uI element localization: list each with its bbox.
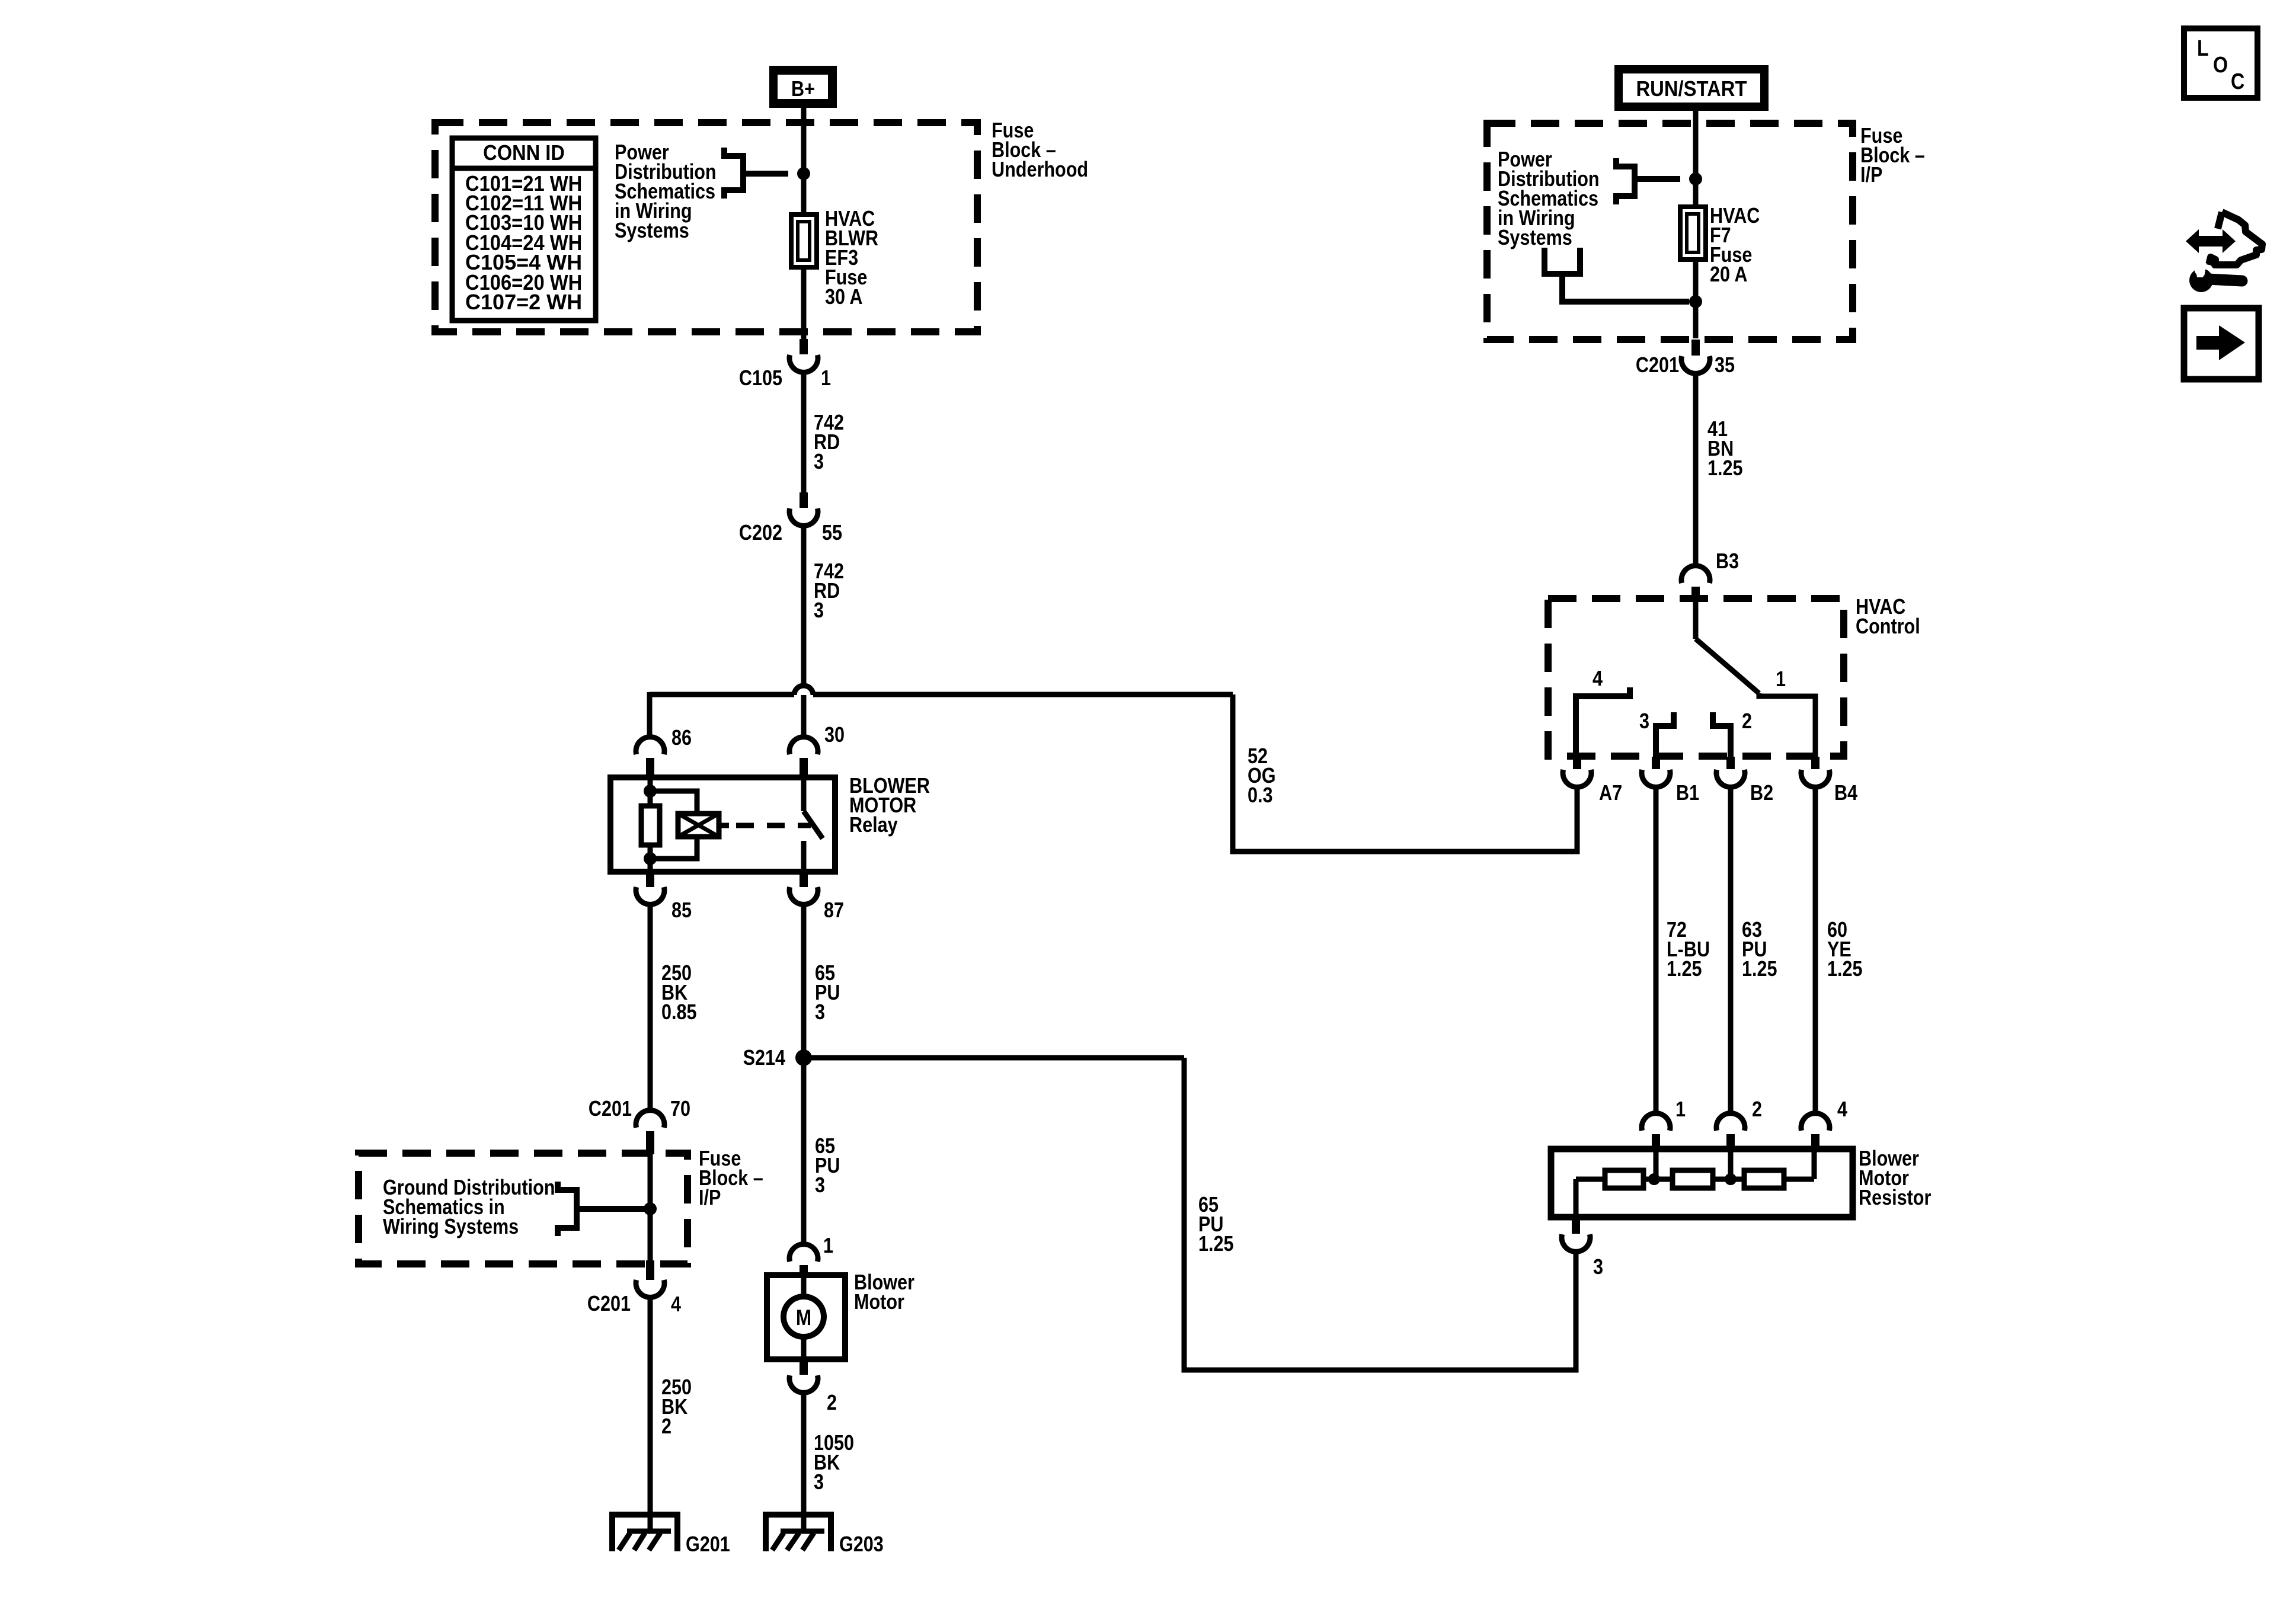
fuse block I/P dashed box (top right) bbox=[1487, 123, 1853, 340]
HVAC control pin A7 blade bbox=[1573, 757, 1581, 769]
svg-text:Wiring Systems: Wiring Systems bbox=[383, 1215, 519, 1239]
svg-text:1: 1 bbox=[1776, 668, 1786, 692]
svg-text:C201: C201 bbox=[1636, 354, 1679, 377]
wire 250 BK to ground G201 bbox=[648, 1297, 653, 1515]
wire 52 OG right segment bbox=[813, 692, 1233, 697]
wire 72 L-BU B1 to resistor pin 1 bbox=[1654, 787, 1659, 1112]
wire fuse EF3 to C105 bbox=[801, 267, 807, 339]
svg-text:3: 3 bbox=[815, 1001, 825, 1025]
relay coil top lead bbox=[648, 777, 653, 806]
svg-text:CONN ID: CONN ID bbox=[483, 142, 565, 165]
connector C201 pin 35 cup bbox=[1681, 356, 1710, 373]
junction dot fuse F7 bottom bbox=[1689, 295, 1702, 308]
svg-text:G203: G203 bbox=[839, 1533, 884, 1557]
svg-text:55: 55 bbox=[822, 521, 842, 545]
switch position 1 contact to B4 bbox=[1759, 693, 1815, 757]
solenoid actuation stub bbox=[719, 823, 729, 828]
wire resistor chain segment A-B bbox=[1643, 1177, 1673, 1182]
relay pin 30 blade bbox=[800, 758, 808, 777]
svg-text:Systems: Systems bbox=[615, 219, 689, 243]
relay pin 86 cup bbox=[636, 737, 664, 754]
svg-text:C107=2 WH: C107=2 WH bbox=[465, 291, 582, 315]
svg-text:B+: B+ bbox=[791, 78, 815, 101]
svg-text:Resistor: Resistor bbox=[1859, 1186, 1931, 1210]
fuse HVAC BLWR EF3 30A bbox=[791, 215, 817, 267]
blower motor box bbox=[767, 1275, 845, 1359]
junction dot fuse F7 top bbox=[1689, 172, 1702, 185]
HVAC control dashed box bbox=[1548, 598, 1844, 756]
connector C201 pin 35 blade bbox=[1691, 340, 1700, 356]
svg-text:Relay: Relay bbox=[849, 814, 898, 837]
svg-text:30 A: 30 A bbox=[825, 286, 862, 309]
svg-text:1: 1 bbox=[823, 1234, 833, 1258]
relay pin 30 cup bbox=[789, 737, 818, 754]
svg-text:4: 4 bbox=[671, 1293, 681, 1317]
svg-text:2: 2 bbox=[1742, 710, 1752, 734]
resistor node pin2 bbox=[1725, 1173, 1737, 1185]
wire 742 RD C202 to hop bbox=[801, 526, 807, 686]
blower motor pin 2 cup bbox=[789, 1375, 818, 1393]
resistor pin 4 blade bbox=[1811, 1134, 1819, 1149]
svg-text:35: 35 bbox=[1715, 354, 1735, 377]
wire 250 BK pin85 to C201-70 bbox=[648, 904, 653, 1112]
svg-text:C201: C201 bbox=[589, 1097, 632, 1121]
LOC icon box bbox=[2184, 28, 2257, 98]
relay actuation dashed link bbox=[736, 823, 811, 828]
fuse HVAC F7 20A bbox=[1680, 207, 1706, 260]
svg-text:Systems: Systems bbox=[1498, 226, 1572, 250]
wire resistor chain right segment bbox=[1784, 1177, 1814, 1182]
svg-text:1.25: 1.25 bbox=[1742, 958, 1777, 981]
forward arrow icon box bbox=[2184, 308, 2259, 379]
wire drop to pin 86 bbox=[647, 692, 653, 738]
connector B3 cup bbox=[1681, 566, 1710, 583]
resistor pin 4 cup bbox=[1801, 1113, 1830, 1131]
note bracket to RUN/START wire bbox=[1616, 158, 1635, 204]
connector B3 blade bbox=[1691, 587, 1700, 600]
switch position 2 contact bbox=[1713, 712, 1731, 757]
svg-text:A7: A7 bbox=[1599, 782, 1622, 805]
svg-text:Motor: Motor bbox=[854, 1291, 904, 1314]
svg-text:I/P: I/P bbox=[699, 1186, 721, 1210]
svg-text:3: 3 bbox=[814, 450, 824, 474]
relay pin 85 cup bbox=[636, 887, 664, 904]
relay coil bottom node bbox=[644, 852, 657, 865]
svg-text:O: O bbox=[2213, 53, 2228, 78]
junction dot ground distribution bbox=[644, 1202, 657, 1215]
lower note bracket (right fuse block) bbox=[1544, 248, 1580, 274]
svg-text:C: C bbox=[2231, 69, 2244, 94]
HVAC control pin B2 cup bbox=[1716, 770, 1745, 787]
wire B+ to fuse EF3 bbox=[801, 108, 807, 212]
HVAC control pin B4 cup bbox=[1801, 770, 1830, 787]
svg-text:86: 86 bbox=[671, 726, 692, 750]
fuse block I/P dashed box (ground side) bbox=[359, 1153, 687, 1264]
motor internal lead bottom bbox=[801, 1337, 807, 1359]
resistor element R-B bbox=[1673, 1170, 1713, 1188]
fuse block underhood dashed box bbox=[435, 123, 977, 332]
svg-text:Control: Control bbox=[1856, 615, 1920, 639]
connector C201 pin 4 blade bbox=[646, 1260, 654, 1280]
HVAC control pin B2 blade bbox=[1726, 757, 1735, 769]
blower motor pin 1 cup bbox=[789, 1244, 818, 1262]
svg-text:0.85: 0.85 bbox=[661, 1001, 697, 1025]
svg-text:C201: C201 bbox=[587, 1292, 631, 1316]
resistor pin 2 internal lead bbox=[1728, 1149, 1734, 1179]
svg-text:S214: S214 bbox=[743, 1046, 786, 1070]
connector C105 male blade bbox=[800, 339, 808, 354]
svg-text:1.25: 1.25 bbox=[1198, 1233, 1234, 1256]
wire 52 OG left segment to relay pin 86 bbox=[650, 692, 794, 697]
connector C202 male blade bbox=[800, 492, 808, 508]
vehicle-service icon: double arrow bbox=[2186, 229, 2236, 253]
svg-text:1: 1 bbox=[1675, 1098, 1686, 1122]
HVAC control pin B1 cup bbox=[1642, 770, 1670, 787]
resistor pin 3 cup bbox=[1562, 1234, 1590, 1251]
svg-text:87: 87 bbox=[824, 899, 844, 923]
relay pin 86 blade bbox=[646, 758, 654, 777]
svg-text:3: 3 bbox=[1593, 1256, 1603, 1279]
svg-text:85: 85 bbox=[671, 899, 692, 923]
relay coil bottom lead bbox=[648, 845, 653, 872]
wire 65 PU pin87 to S214 bbox=[801, 904, 807, 1058]
svg-text:4: 4 bbox=[1837, 1098, 1847, 1122]
switch position 4 contact bbox=[1576, 687, 1630, 757]
relay coil parallel branch top bbox=[650, 791, 697, 814]
HVAC switch blade (diagonal) bbox=[1696, 639, 1759, 693]
wire 1050 BK to ground G203 bbox=[801, 1393, 807, 1515]
vehicle-service icon: vehicle outline bbox=[2218, 212, 2222, 229]
blower motor pin 2 blade bbox=[800, 1359, 808, 1375]
wire resistor chain segment B-C bbox=[1713, 1177, 1744, 1182]
wire 65 PU run to resistor pin 3 bbox=[1184, 1058, 1576, 1370]
wire RUN/START to fuse F7 bbox=[1693, 111, 1699, 204]
svg-text:1.25: 1.25 bbox=[1827, 958, 1863, 981]
motor M circle bbox=[784, 1297, 824, 1337]
svg-text:1.25: 1.25 bbox=[1707, 457, 1743, 481]
switch common wire from B3 bbox=[1693, 600, 1699, 639]
wire 63 PU B2 to resistor pin 2 bbox=[1728, 787, 1734, 1112]
svg-text:M: M bbox=[796, 1306, 811, 1330]
svg-text:2: 2 bbox=[827, 1391, 837, 1415]
svg-text:B4: B4 bbox=[1834, 782, 1857, 805]
relay coil parallel branch bottom bbox=[650, 837, 697, 859]
svg-text:20 A: 20 A bbox=[1710, 263, 1747, 287]
svg-text:4: 4 bbox=[1593, 667, 1603, 691]
power terminal RUN/START bbox=[1614, 65, 1769, 111]
svg-text:Underhood: Underhood bbox=[992, 158, 1088, 182]
wire hop to relay pin 30 bbox=[801, 695, 807, 738]
relay pin 87 cup bbox=[789, 887, 818, 904]
svg-text:30: 30 bbox=[824, 724, 845, 747]
resistor node pin1 bbox=[1648, 1173, 1660, 1185]
svg-text:3: 3 bbox=[814, 1471, 824, 1494]
resistor pin 1 cup bbox=[1642, 1113, 1670, 1131]
splice S214 bbox=[795, 1049, 812, 1066]
blower motor pin 1 blade bbox=[800, 1265, 808, 1278]
connector C201 pin 70 blade bbox=[646, 1131, 654, 1154]
svg-text:I/P: I/P bbox=[1860, 164, 1882, 187]
power terminal B+ bbox=[769, 66, 837, 108]
ground G203 bbox=[766, 1515, 831, 1551]
resistor element R-C bbox=[1744, 1170, 1784, 1188]
HVAC control pin B4 blade bbox=[1811, 757, 1819, 769]
resistor pin 3 blade bbox=[1572, 1217, 1580, 1234]
wire hop over 52 OG wire bbox=[794, 686, 813, 695]
resistor pin 1 blade bbox=[1652, 1134, 1660, 1149]
note bracket to B+ wire bbox=[724, 148, 743, 199]
svg-text:2: 2 bbox=[1752, 1098, 1762, 1122]
wire inside fuse block I/P bbox=[648, 1154, 653, 1260]
svg-text:B3: B3 bbox=[1716, 550, 1739, 574]
svg-text:RUN/START: RUN/START bbox=[1636, 78, 1748, 101]
svg-text:L: L bbox=[2197, 36, 2209, 61]
svg-text:1.25: 1.25 bbox=[1667, 958, 1702, 981]
svg-text:1: 1 bbox=[821, 367, 831, 391]
svg-text:70: 70 bbox=[670, 1097, 690, 1121]
relay switch blade bbox=[804, 811, 823, 838]
relay switch common from pin 30 bbox=[801, 777, 807, 811]
resistor pin 4 internal lead bbox=[1812, 1149, 1817, 1179]
svg-text:3: 3 bbox=[814, 599, 824, 623]
CONN ID table bbox=[452, 138, 596, 321]
switch position 3 contact bbox=[1656, 712, 1674, 757]
wire 52 OG from A7 to relay circuit bbox=[1233, 694, 1577, 852]
wire 65 PU S214 to blower motor bbox=[801, 1058, 807, 1244]
relay coil resistor bbox=[641, 806, 660, 845]
resistor pin 3 internal lead bbox=[1574, 1179, 1579, 1217]
svg-text:C105: C105 bbox=[739, 367, 782, 391]
relay coil top node bbox=[644, 785, 657, 798]
wire 41 BN to HVAC control bbox=[1693, 373, 1699, 566]
relay BLOWER MOTOR Relay box bbox=[610, 777, 835, 872]
wire 60 YE B4 to resistor pin 4 bbox=[1813, 787, 1818, 1112]
wire 742 RD C105 to C202 bbox=[801, 372, 807, 495]
HVAC control pin A7 cup bbox=[1563, 770, 1591, 787]
wire resistor chain left segment bbox=[1576, 1177, 1605, 1182]
ground G201 bbox=[612, 1515, 677, 1551]
wire fuse F7 to C201-35 bbox=[1693, 260, 1699, 338]
resistor pin 1 internal lead bbox=[1654, 1149, 1659, 1179]
relay switch output to pin 87 bbox=[801, 841, 807, 872]
svg-text:B1: B1 bbox=[1676, 782, 1699, 805]
resistor element R-A bbox=[1605, 1170, 1643, 1188]
relay pin 85 blade bbox=[646, 875, 654, 887]
svg-text:3: 3 bbox=[1639, 710, 1649, 734]
connector C202 pin 55 cup bbox=[789, 508, 818, 526]
connector C201 pin 4 cup bbox=[636, 1280, 664, 1297]
resistor pin 2 cup bbox=[1716, 1113, 1745, 1131]
svg-text:G201: G201 bbox=[686, 1533, 730, 1557]
vehicle-service icon: wrench bbox=[2189, 268, 2213, 292]
motor internal lead top bbox=[801, 1278, 807, 1297]
connector C105 pin 1 cup bbox=[789, 355, 818, 372]
svg-text:0.3: 0.3 bbox=[1248, 784, 1273, 808]
wire 65 PU S214 to resistor (horizontal) bbox=[804, 1055, 1184, 1061]
relay pin 87 blade bbox=[800, 875, 808, 887]
blower motor resistor box bbox=[1551, 1149, 1853, 1217]
ground note bracket bbox=[558, 1182, 577, 1236]
svg-text:3: 3 bbox=[815, 1174, 825, 1198]
svg-text:2: 2 bbox=[661, 1415, 671, 1439]
HVAC control pin B1 blade bbox=[1652, 757, 1660, 769]
resistor pin 2 blade bbox=[1726, 1134, 1735, 1149]
relay solenoid X-box bbox=[678, 814, 719, 837]
svg-text:B2: B2 bbox=[1750, 782, 1773, 805]
connector C201 pin 70 cup bbox=[636, 1110, 664, 1128]
svg-text:C202: C202 bbox=[739, 521, 782, 545]
junction dot B+ feed bbox=[797, 167, 810, 180]
